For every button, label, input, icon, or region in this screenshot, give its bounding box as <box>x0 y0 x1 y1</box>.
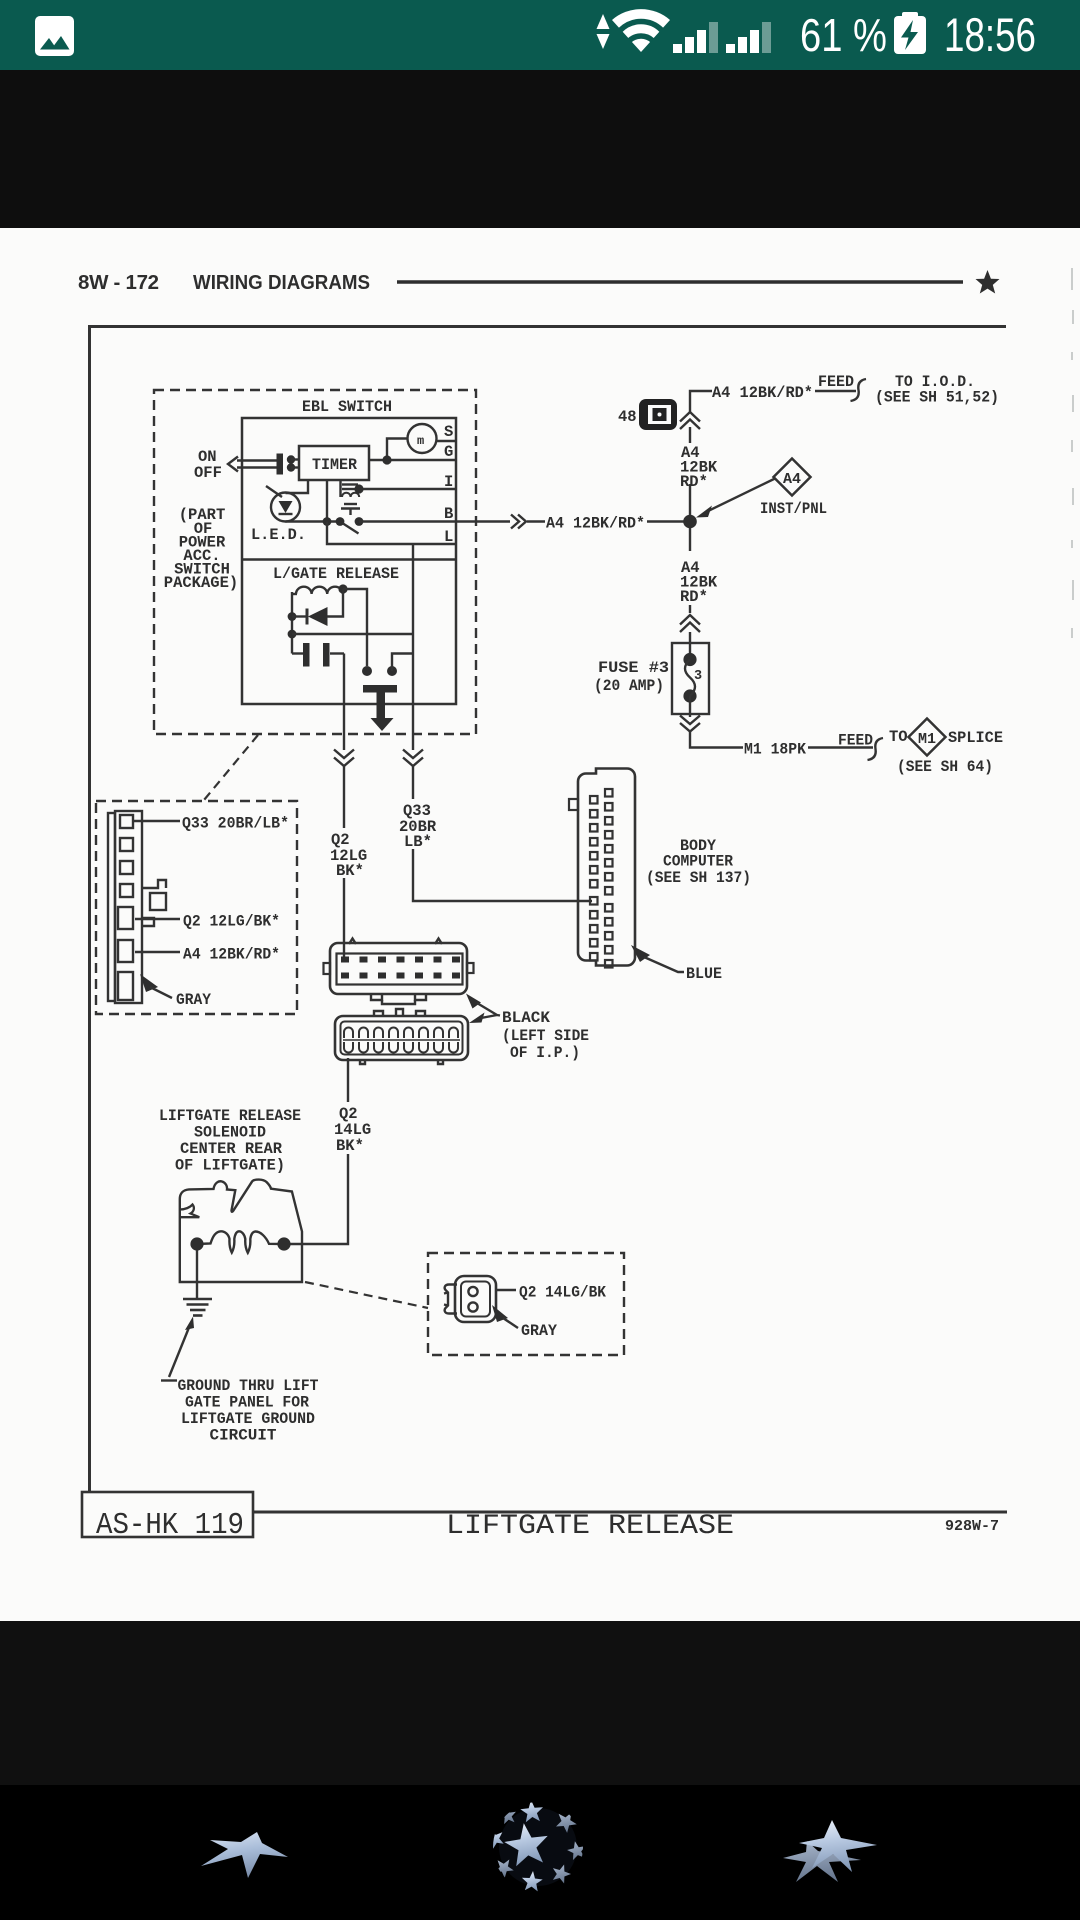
wire timer leg to relay coil <box>339 480 341 497</box>
diode CR1 <box>292 589 343 626</box>
take-out squiggle bottom <box>868 738 884 760</box>
B row wire to edge <box>359 520 510 522</box>
svg-text:A4 12BK/RD*: A4 12BK/RD* <box>546 515 645 533</box>
2-way connector dashed box <box>428 1253 624 1355</box>
EBL switch dashed enclosure <box>154 390 476 734</box>
I row wire <box>359 488 456 490</box>
left branch vertical <box>291 592 293 654</box>
PART OF POWER ACC SWITCH PACKAGE note <box>164 506 238 592</box>
svg-text:(SEE SH 137): (SEE SH 137) <box>646 869 751 887</box>
svg-text:SOLENOID: SOLENOID <box>194 1124 266 1142</box>
inline connector 48 chevrons <box>680 412 700 429</box>
14-way connector pins row 2 <box>341 973 460 979</box>
svg-text:LIFTGATE GROUND: LIFTGATE GROUND <box>181 1410 315 1428</box>
switch assembly inner box <box>242 418 456 704</box>
BLUE label arrow <box>631 945 684 972</box>
signal bars 1 <box>673 22 718 53</box>
timer box U1 <box>299 446 369 480</box>
signal bars 2 <box>726 22 771 53</box>
wire label Q2 12LG BK* stack <box>330 831 367 880</box>
svg-text:OF I.P.): OF I.P.) <box>510 1044 580 1062</box>
svg-text:A4: A4 <box>783 472 801 488</box>
BODY COMPUTER label <box>646 837 751 887</box>
svg-text:18:56: 18:56 <box>944 8 1036 61</box>
GRAY arrow 2 <box>492 1305 518 1328</box>
actuator links <box>237 459 277 461</box>
svg-text:FEED: FEED <box>818 373 854 391</box>
wire Q2 from connector <box>347 1058 349 1102</box>
svg-text:GROUND THRU LIFT: GROUND THRU LIFT <box>178 1377 319 1395</box>
header star <box>976 270 1000 294</box>
node coil out <box>338 584 347 593</box>
S row wire <box>437 440 457 442</box>
16-way connector black bottom <box>335 1009 468 1064</box>
FUSE #3 20 AMP label <box>594 659 669 695</box>
wires contacts to timer <box>291 458 299 460</box>
gallery notification icon <box>35 16 74 56</box>
main border frame <box>90 327 1007 1493</box>
svg-text:928W-7: 928W-7 <box>945 1518 999 1535</box>
wire M1 elbow <box>690 732 743 748</box>
svg-text:GRAY: GRAY <box>521 1322 558 1340</box>
svg-text:Q33 20BR/LB*: Q33 20BR/LB* <box>182 815 289 833</box>
svg-text:A4 12BK/RD*: A4 12BK/RD* <box>183 946 280 964</box>
svg-text:OFF: OFF <box>194 464 222 482</box>
svg-text:A4 12BK/RD*: A4 12BK/RD* <box>712 384 813 402</box>
left flat star icon <box>201 1832 288 1878</box>
contact plate symbol <box>341 504 360 515</box>
inline connector chevrons on Q33 wire <box>403 750 423 767</box>
L row wire <box>327 522 456 545</box>
B row wire from LED <box>286 520 341 522</box>
wire chevron to top elbow <box>690 391 712 412</box>
svg-text:LB*: LB* <box>404 833 432 851</box>
leader Q2 14LG/BK <box>496 1289 516 1291</box>
capacitor C1 <box>292 643 344 667</box>
diamond leader wire with arrow <box>696 479 775 518</box>
svg-text:LIFTGATE RELEASE: LIFTGATE RELEASE <box>159 1107 301 1125</box>
solenoid coil L1 <box>296 587 343 594</box>
wire label Q33 20BR LB* stack <box>399 802 437 851</box>
contact node upper <box>287 455 295 463</box>
16-way connector pin slots row 2 <box>343 1040 460 1053</box>
latch hook mouth <box>180 1205 200 1218</box>
svg-text:OF LIFTGATE): OF LIFTGATE) <box>175 1157 285 1175</box>
wire to fuse chevron <box>689 605 691 613</box>
ground bar <box>363 685 397 731</box>
inline connector chevrons below fuse <box>680 716 700 732</box>
battery icon <box>894 12 926 54</box>
GRAY arrow <box>140 974 172 998</box>
svg-text:(20 AMP): (20 AMP) <box>594 677 664 695</box>
A4 feed vertical upper <box>689 484 691 515</box>
svg-text:(LEFT SIDE: (LEFT SIDE <box>502 1027 589 1045</box>
svg-text:CIRCUIT: CIRCUIT <box>210 1427 277 1445</box>
contact node lower <box>287 463 295 471</box>
svg-text:WIRING DIAGRAMS: WIRING DIAGRAMS <box>193 271 370 294</box>
wire under FEED to splice <box>808 746 873 748</box>
GROUND THRU LIFT GATE note <box>178 1377 319 1445</box>
BLACK left side of IP label <box>502 1009 589 1062</box>
svg-text:M1 18PK: M1 18PK <box>744 741 807 759</box>
wire Q33 below chevron <box>412 766 414 799</box>
TO I.O.D. note <box>875 373 999 407</box>
instrument panel diamond A4 <box>774 459 811 496</box>
liftgate latch housing outline <box>180 1180 302 1282</box>
svg-text:EBL SWITCH: EBL SWITCH <box>302 398 392 416</box>
inline connector chevrons on Q2 wire <box>334 750 354 767</box>
inline connector chevrons on B wire <box>511 515 526 529</box>
ground note arrow <box>161 1317 194 1381</box>
relay coil with core <box>342 485 359 498</box>
switch blade <box>343 524 359 534</box>
wire above label to chevron <box>689 427 691 443</box>
svg-text:RD*: RD* <box>680 588 708 606</box>
main border bottom line <box>253 1511 1007 1514</box>
svg-text:TO: TO <box>889 728 908 746</box>
node timer-G junction <box>382 455 391 464</box>
ground symbol <box>183 1299 212 1316</box>
right double star icon <box>783 1820 877 1882</box>
LIFTGATE RELEASE SOLENOID note <box>159 1107 301 1175</box>
svg-text:m: m <box>417 434 424 448</box>
wire Q2 below chevron <box>343 766 345 828</box>
BLACK label arrows <box>466 994 500 1024</box>
svg-text:CENTER REAR: CENTER REAR <box>180 1140 283 1158</box>
14-way connector pins row 1 <box>341 957 460 963</box>
footer sheet number box AS-HK 119 <box>82 1492 253 1543</box>
svg-text:48: 48 <box>618 408 637 426</box>
ground wire <box>196 1250 198 1299</box>
svg-text:BK*: BK* <box>336 1137 364 1155</box>
svg-text:SPLICE: SPLICE <box>948 729 1003 747</box>
wire plunger right leg <box>392 654 413 672</box>
svg-text:L/GATE RELEASE: L/GATE RELEASE <box>273 565 399 583</box>
leader Q2 pin <box>135 918 180 920</box>
page header title <box>78 271 370 294</box>
2-way gray connector <box>444 1276 496 1322</box>
svg-text:FEED: FEED <box>838 732 873 750</box>
splice diamond M1 <box>909 719 946 756</box>
node diode left <box>288 612 297 621</box>
take-out squiggle top <box>851 379 867 401</box>
wire Q33 to body computer <box>413 849 592 901</box>
svg-text:COMPUTER: COMPUTER <box>663 853 734 871</box>
16-way connector pin slots row 1 <box>344 1028 458 1039</box>
inline connector chevrons above fuse <box>680 615 700 632</box>
svg-text:RD*: RD* <box>680 473 708 491</box>
node solenoid right terminal <box>277 1237 290 1250</box>
wire label Q2 14LG BK* stack <box>334 1105 371 1155</box>
feed wire under label <box>815 390 856 392</box>
node solenoid left terminal <box>190 1237 203 1250</box>
on-off switch actuator arrow <box>228 457 238 472</box>
coil left lead <box>292 593 297 595</box>
data up/down arrows <box>597 14 610 49</box>
svg-text:(SEE SH 51,52): (SEE SH 51,52) <box>875 389 999 407</box>
dashed leader to connector detail <box>204 735 258 800</box>
scan edge artifacts <box>1072 268 1073 638</box>
actuator bar <box>277 454 284 475</box>
svg-text:Q2 14LG/BK: Q2 14LG/BK <box>519 1284 607 1302</box>
ON OFF labels <box>194 448 222 482</box>
wifi icon <box>612 9 670 52</box>
gray connector side view <box>108 811 166 1003</box>
node row2 left <box>288 630 297 639</box>
svg-text:BLACK: BLACK <box>502 1009 551 1027</box>
center starball icon <box>485 1800 586 1891</box>
body computer pins left column <box>590 796 598 961</box>
svg-text:3: 3 <box>694 669 702 684</box>
LED D1 <box>266 486 300 522</box>
svg-text:Q2 12LG/BK*: Q2 12LG/BK* <box>183 913 280 931</box>
wire coil to plunger <box>343 589 367 666</box>
svg-text:BLUE: BLUE <box>686 965 722 983</box>
svg-text:AS-HK 119: AS-HK 119 <box>96 1508 244 1543</box>
svg-text:GRAY: GRAY <box>176 991 212 1009</box>
wire into fuse <box>689 632 691 659</box>
svg-text:M1: M1 <box>918 732 936 748</box>
wire label A4 12BK/RD* <box>527 520 545 522</box>
svg-text:GATE PANEL FOR: GATE PANEL FOR <box>185 1394 310 1412</box>
body computer pins right column <box>605 789 613 968</box>
svg-text:(SEE SH 64): (SEE SH 64) <box>897 758 993 776</box>
svg-text:8W - 172: 8W - 172 <box>78 271 159 294</box>
svg-text:INST/PNL: INST/PNL <box>760 500 827 518</box>
wire label A4 12BK RD* upper stack <box>680 444 718 491</box>
node B1 <box>323 517 332 526</box>
wire below fuse <box>689 714 691 717</box>
connector 48 icon <box>639 399 677 430</box>
leader A4 pin <box>135 951 180 953</box>
connector detail dashed box <box>96 801 297 1014</box>
leader Q33 pin <box>133 820 180 822</box>
node plunger left <box>362 666 372 676</box>
node plunger right <box>387 666 397 676</box>
body computer connector blue <box>569 769 635 966</box>
solenoid coil winding <box>197 1231 284 1253</box>
wire Q2 down from capacitor <box>343 654 345 751</box>
wire lamp to timer junction <box>387 439 408 461</box>
svg-text:PACKAGE): PACKAGE) <box>164 574 238 592</box>
fuse #3 <box>672 643 709 714</box>
svg-text:LIFTGATE RELEASE: LIFTGATE RELEASE <box>446 1511 734 1542</box>
svg-text:S: S <box>444 423 453 441</box>
wire Q2 into connector <box>343 878 345 959</box>
wire label A4 12BK RD* lower stack <box>680 559 718 606</box>
node coil-I junction <box>354 484 363 493</box>
wire Q2 down to solenoid <box>290 1154 348 1244</box>
A4 feed vertical lower <box>689 528 691 551</box>
G row wire <box>369 459 456 461</box>
svg-text:61 %: 61 % <box>800 9 887 61</box>
wire timer leg to B contact <box>326 480 328 521</box>
node A4 junction <box>683 515 697 529</box>
wire L feed vertical <box>412 544 414 750</box>
svg-text:TIMER: TIMER <box>312 456 358 474</box>
svg-text:G: G <box>444 443 453 461</box>
row2 wire <box>292 633 413 635</box>
divider line <box>242 558 456 560</box>
header rule line <box>397 280 963 283</box>
svg-text:BK*: BK* <box>336 862 364 880</box>
svg-text:FUSE #3: FUSE #3 <box>598 659 669 677</box>
wire to junction node <box>647 520 684 522</box>
svg-text:L.E.D.: L.E.D. <box>251 526 306 544</box>
node B3 <box>355 517 364 526</box>
wire timer to LED <box>286 480 309 493</box>
14-way connector black top <box>324 939 474 1005</box>
indicator lamp M <box>408 424 437 453</box>
node B2 <box>336 517 345 526</box>
dashed leader to 2-way connector <box>305 1282 428 1308</box>
